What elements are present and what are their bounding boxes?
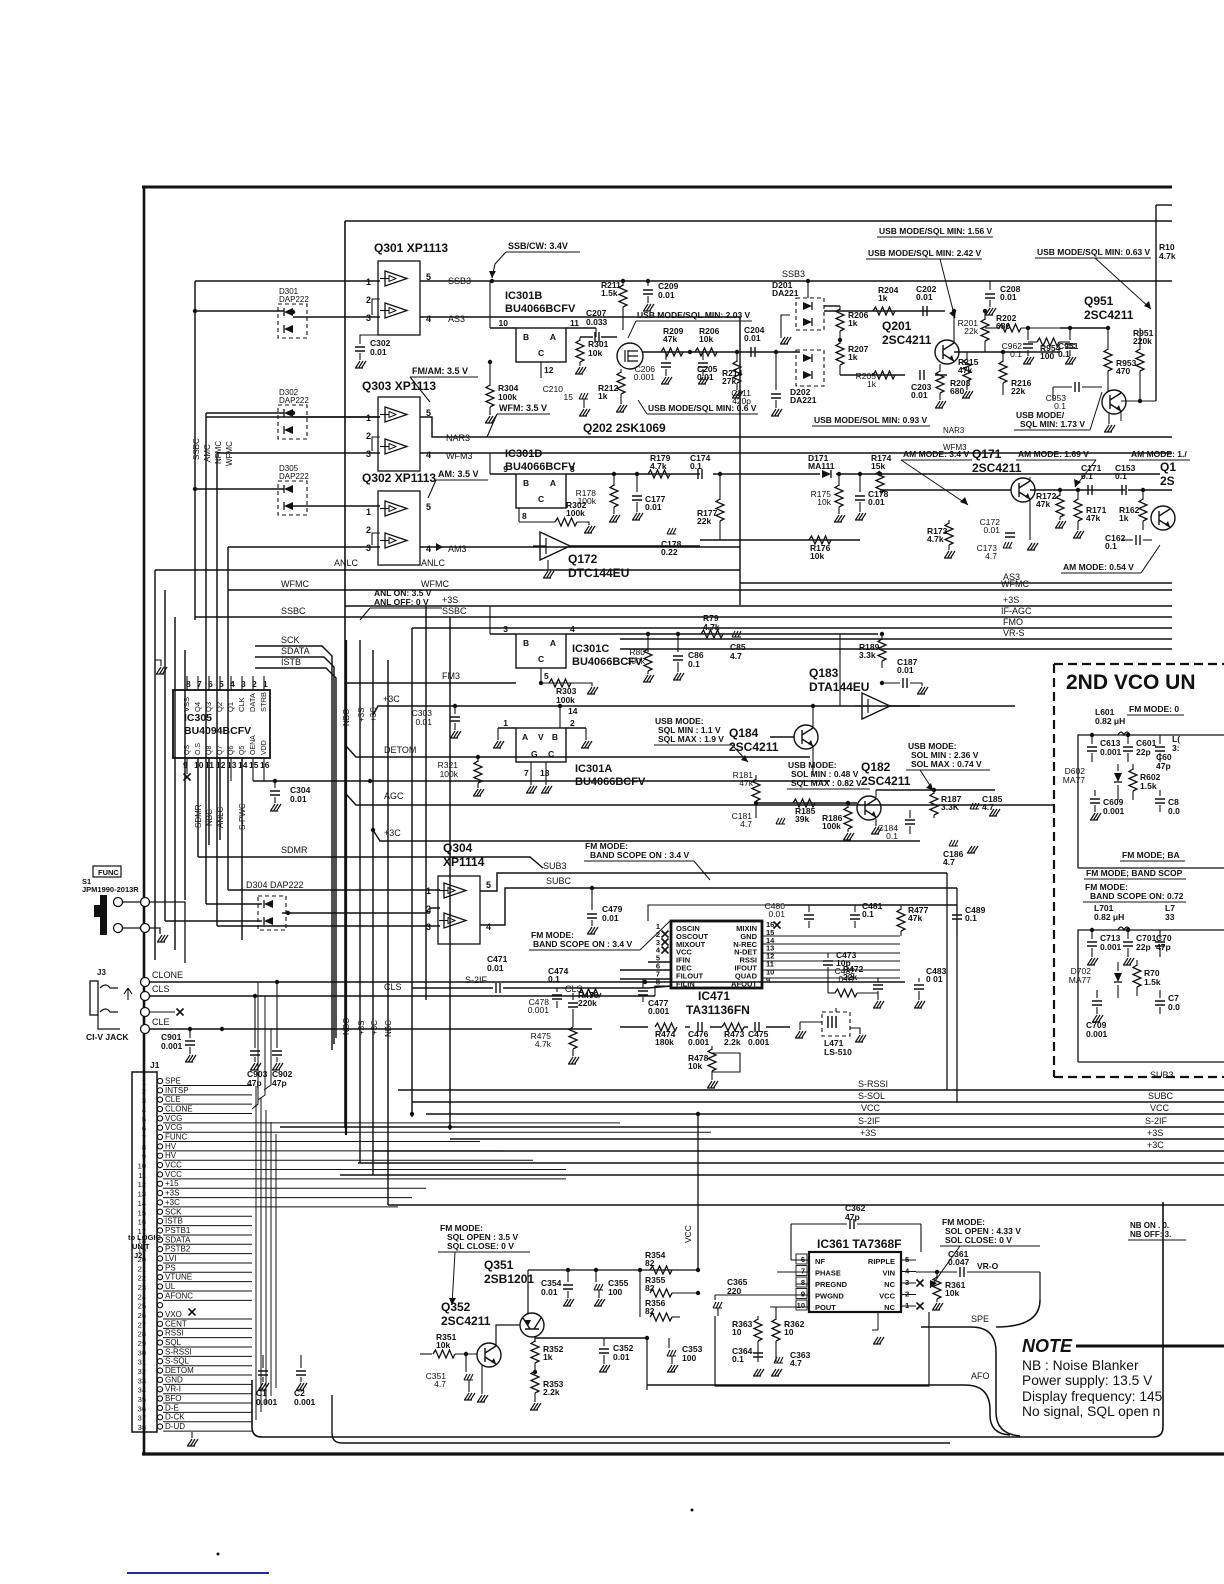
wire J1 risers from CLONE/CLS/CLE xyxy=(252,982,258,1109)
resistor R321 xyxy=(477,757,479,762)
svg-text:47p: 47p xyxy=(247,1078,262,1088)
svg-text:2ND VCO UN: 2ND VCO UN xyxy=(1066,671,1196,694)
capacitor C475 xyxy=(755,1022,759,1032)
sheet frame bottom edge xyxy=(142,1452,1224,1455)
svg-text:LVI: LVI xyxy=(165,1254,176,1263)
resistor R207 xyxy=(839,340,841,344)
svg-text:B: B xyxy=(523,638,529,648)
svg-text:RSSI: RSSI xyxy=(165,1329,184,1338)
IC361 NC X marks xyxy=(917,1280,924,1287)
long wire 1163 xyxy=(358,1162,1224,1164)
IC IC301A box xyxy=(516,728,566,762)
resistor R70x xyxy=(1136,960,1138,966)
svg-text:BFO: BFO xyxy=(165,1394,181,1403)
capacitor C609 xyxy=(1094,790,1096,796)
svg-text:+3C: +3C xyxy=(370,1020,379,1035)
capacitor C364 xyxy=(753,1353,763,1357)
capacitor C471 xyxy=(496,983,500,993)
svg-text:JPM1990-2013R: JPM1990-2013R xyxy=(82,885,139,894)
capacitor C303 xyxy=(454,706,456,714)
resistor R177 xyxy=(719,474,721,500)
svg-text:GND: GND xyxy=(165,1375,183,1384)
svg-text:NAR3: NAR3 xyxy=(446,433,470,443)
svg-text:8: 8 xyxy=(801,1278,805,1287)
svg-text:CI-V JACK: CI-V JACK xyxy=(86,1032,129,1042)
capacitor C901 xyxy=(189,1029,191,1038)
capacitor C953 xyxy=(1075,382,1079,392)
wire SCK xyxy=(255,646,332,1050)
wire SDATA xyxy=(255,657,334,1044)
svg-text:22: 22 xyxy=(138,1274,146,1283)
svg-text:J1: J1 xyxy=(150,1060,160,1070)
svg-text:WFMC: WFMC xyxy=(1001,579,1029,589)
svg-text:SUB3: SUB3 xyxy=(543,861,567,871)
resistor R953 xyxy=(1107,328,1109,350)
svg-text:PS: PS xyxy=(165,1263,176,1272)
IC IC305 box xyxy=(173,690,270,758)
resistor R951 xyxy=(1139,328,1141,350)
svg-text:0.01: 0.01 xyxy=(697,372,714,382)
svg-text:NB : Noise Blanker: NB : Noise Blanker xyxy=(1022,1358,1139,1373)
Q304 buffer b xyxy=(439,913,466,928)
L471 coil symbol xyxy=(828,1016,836,1028)
svg-text:+3S: +3S xyxy=(860,1128,876,1138)
J1 ground xyxy=(191,1432,193,1438)
diode D602 xyxy=(1114,773,1122,782)
svg-text:0.01: 0.01 xyxy=(868,497,885,507)
resistor R351 xyxy=(420,1353,432,1355)
svg-text:3: 3 xyxy=(426,922,431,932)
top right corner bracket xyxy=(1156,204,1172,206)
capacitor C203 xyxy=(920,370,924,380)
svg-text:WFMC: WFMC xyxy=(225,441,234,466)
wire SUBC vertical drop xyxy=(956,888,958,1102)
IC301D output wire xyxy=(566,473,700,475)
inductor L701 symbol xyxy=(1118,927,1130,930)
svg-text:0.1: 0.1 xyxy=(965,913,977,923)
capacitor C352 xyxy=(603,1338,605,1346)
capacitor C354 xyxy=(567,1270,569,1282)
wire R205 row xyxy=(840,374,905,376)
svg-text:SCK: SCK xyxy=(281,635,300,645)
wire AGC xyxy=(346,794,1054,805)
wire IC471 top rail xyxy=(648,905,785,921)
capacitor C211 xyxy=(775,352,777,390)
svg-text:0.001: 0.001 xyxy=(748,1037,770,1047)
svg-text:Q182: Q182 xyxy=(861,760,891,774)
svg-text:0.033: 0.033 xyxy=(586,317,608,327)
svg-text:1.5k: 1.5k xyxy=(1144,977,1161,987)
svg-text:BAND SCOPE ON : 3.4 V: BAND SCOPE ON : 3.4 V xyxy=(590,850,690,860)
wire DETOM xyxy=(346,746,810,757)
svg-text:28: 28 xyxy=(138,1330,146,1339)
S1 lower wire to ground xyxy=(149,928,160,934)
svg-text:NOTE: NOTE xyxy=(1022,1336,1073,1356)
resistor R205 xyxy=(873,371,895,379)
resistor R361 xyxy=(936,1272,938,1278)
svg-text:NC: NC xyxy=(884,1280,895,1289)
svg-text:23: 23 xyxy=(138,1283,146,1292)
svg-text:10k: 10k xyxy=(588,348,602,358)
third contact circle with X xyxy=(141,1008,150,1017)
svg-text:0.01: 0.01 xyxy=(290,794,307,804)
CLS arrow mark xyxy=(124,988,132,1000)
svg-text:10k: 10k xyxy=(436,1340,450,1350)
svg-text:DAP222: DAP222 xyxy=(279,472,309,481)
svg-text:0.1: 0.1 xyxy=(1105,541,1117,551)
wire SPE xyxy=(1039,1272,1041,1300)
svg-text:5: 5 xyxy=(142,1115,146,1124)
wire left edge vertical 1 xyxy=(154,570,156,960)
svg-text:0.001: 0.001 xyxy=(1103,806,1125,816)
CLE circle and wire xyxy=(141,1025,150,1034)
svg-text:DTA144EU: DTA144EU xyxy=(809,680,869,694)
svg-text:HV: HV xyxy=(165,1151,177,1160)
svg-text:1: 1 xyxy=(142,1078,146,1087)
wire Q182 emitter xyxy=(875,819,877,826)
svg-text:SSBC: SSBC xyxy=(281,606,306,616)
IC301C pin3 wire xyxy=(489,606,491,634)
D302 diode elements xyxy=(284,409,293,417)
transistor Q184 xyxy=(794,725,818,749)
resistor R212 xyxy=(620,369,622,373)
svg-text:Q4: Q4 xyxy=(193,702,202,712)
svg-text:47p: 47p xyxy=(272,1078,287,1088)
Q303 buffer b xyxy=(380,439,407,454)
svg-text:10k: 10k xyxy=(810,551,824,561)
svg-text:0.01: 0.01 xyxy=(613,1352,630,1362)
svg-text:2.2k: 2.2k xyxy=(724,1037,741,1047)
svg-text:SPE: SPE xyxy=(165,1077,181,1086)
svg-text:0.22: 0.22 xyxy=(661,547,678,557)
resistor R187 xyxy=(933,790,935,794)
svg-text:VIN: VIN xyxy=(882,1269,895,1278)
svg-text:FM MODE; BAND SCOP: FM MODE; BAND SCOP xyxy=(1086,868,1183,878)
transistor Q182 xyxy=(857,796,881,820)
capacitor C483 xyxy=(918,978,920,982)
IC301B pin wires xyxy=(490,327,516,329)
capacitor C351 electrolytic xyxy=(465,1354,467,1372)
svg-text:ISTB: ISTB xyxy=(165,1217,183,1226)
svg-text:4.7k: 4.7k xyxy=(927,534,944,544)
svg-text:100k: 100k xyxy=(578,496,597,506)
wire Q301 pin2 loop xyxy=(372,299,380,315)
svg-text:4.7k: 4.7k xyxy=(1159,251,1176,261)
resistor R478 xyxy=(711,1046,713,1050)
resistor R172 xyxy=(1059,490,1061,496)
svg-text:180k: 180k xyxy=(655,1037,674,1047)
wire IC301B out to C207 xyxy=(566,327,596,329)
capacitor C210 electrolytic xyxy=(579,393,588,399)
svg-text:VCG: VCG xyxy=(165,1123,182,1132)
capacitor C184 xyxy=(905,820,915,824)
svg-text:0.001: 0.001 xyxy=(1086,1029,1108,1039)
wire Q182 base row xyxy=(756,802,857,804)
svg-text:37: 37 xyxy=(138,1414,146,1423)
svg-text:Q202 2SK1069: Q202 2SK1069 xyxy=(583,421,666,435)
resistor R352 xyxy=(531,1341,539,1363)
svg-text:0.1: 0.1 xyxy=(732,1354,744,1364)
wire Q352 collector to Q351 base xyxy=(496,1325,520,1346)
svg-text:13: 13 xyxy=(227,760,237,770)
svg-text:B: B xyxy=(523,478,529,488)
svg-text:1: 1 xyxy=(426,886,431,896)
svg-text:680: 680 xyxy=(996,321,1010,331)
svg-text:1k: 1k xyxy=(848,318,858,328)
svg-text:3: 3 xyxy=(366,313,371,323)
svg-text:7: 7 xyxy=(801,1267,805,1276)
svg-text:0.1: 0.1 xyxy=(1081,471,1093,481)
svg-text:100k: 100k xyxy=(566,508,585,518)
wire vertical NBC mid xyxy=(387,660,389,1205)
svg-text:UL: UL xyxy=(165,1282,176,1291)
wire SSBC vertical xyxy=(194,281,196,620)
svg-text:0.1: 0.1 xyxy=(862,909,874,919)
svg-text:11: 11 xyxy=(570,318,579,328)
wire Q184 collector xyxy=(812,706,814,728)
svg-text:100k: 100k xyxy=(822,821,841,831)
capacitor C474 xyxy=(556,988,558,992)
wire to IC471 pin5 xyxy=(560,987,648,989)
svg-text:10k: 10k xyxy=(688,1061,702,1071)
svg-text:47p: 47p xyxy=(1156,942,1171,952)
svg-text:2SC4211: 2SC4211 xyxy=(1084,308,1134,322)
capacitor C177 xyxy=(636,474,638,492)
svg-text:26: 26 xyxy=(138,1311,146,1320)
svg-text:13: 13 xyxy=(138,1190,146,1199)
svg-text:IC301C: IC301C xyxy=(572,643,609,655)
R478 bypass loop xyxy=(712,1053,740,1072)
svg-text:Q2: Q2 xyxy=(215,702,224,712)
IC471 right stub wires xyxy=(762,935,900,937)
svg-text:29: 29 xyxy=(138,1339,146,1348)
wire left edge vertical 3 xyxy=(174,617,176,950)
capacitor C178b electrolytic xyxy=(667,528,676,534)
svg-text:1k: 1k xyxy=(867,379,877,389)
svg-text:4.7: 4.7 xyxy=(730,651,742,661)
resistor R355 xyxy=(639,1270,641,1293)
svg-text:30: 30 xyxy=(138,1348,146,1357)
svg-text:0.047: 0.047 xyxy=(948,1257,970,1267)
svg-text:NC: NC xyxy=(884,1303,895,1312)
svg-text:Q1: Q1 xyxy=(1160,460,1176,474)
svg-text:2SC4211: 2SC4211 xyxy=(972,461,1022,475)
IC305 ground top-left xyxy=(155,660,161,666)
resistor R201 xyxy=(984,311,986,320)
wire gate xyxy=(601,336,617,338)
diode D301 DAP222 dashed box xyxy=(278,304,307,338)
svg-text:10: 10 xyxy=(499,318,509,328)
svg-text:1k: 1k xyxy=(848,352,858,362)
capacitor C174 xyxy=(698,469,702,479)
svg-text:1: 1 xyxy=(366,413,371,423)
svg-text:680: 680 xyxy=(950,386,964,396)
svg-text:0.001: 0.001 xyxy=(161,1041,183,1051)
Q303 buffer a xyxy=(380,407,407,422)
svg-text:3: 3 xyxy=(366,449,371,459)
wire R204 row xyxy=(860,310,945,312)
svg-text:12: 12 xyxy=(138,1180,146,1189)
svg-text:SQL MAX : 0.82 V: SQL MAX : 0.82 V xyxy=(791,778,862,788)
svg-text:47k: 47k xyxy=(958,365,972,375)
IC IC301C box xyxy=(516,634,566,668)
net SSBC bus line xyxy=(195,616,1172,618)
IC IC301D box xyxy=(516,474,566,508)
svg-text:0.0: 0.0 xyxy=(1168,806,1180,816)
svg-text:82: 82 xyxy=(645,1306,655,1316)
capacitor C962 xyxy=(1027,328,1029,340)
wire Q351 emitter down xyxy=(534,1337,536,1342)
D305 diode elements xyxy=(284,485,293,493)
svg-text:82: 82 xyxy=(645,1283,655,1293)
svg-text:32: 32 xyxy=(138,1367,146,1376)
svg-text:+3S: +3S xyxy=(1003,595,1019,605)
svg-text:3.3k: 3.3k xyxy=(859,650,876,660)
svg-text:Q352: Q352 xyxy=(441,1300,471,1314)
svg-text:14: 14 xyxy=(138,1199,146,1208)
svg-text:VR-O: VR-O xyxy=(977,1261,999,1271)
wire Q304 inputs xyxy=(228,889,440,891)
wire Q184 emitter xyxy=(812,746,814,775)
svg-text:PWGND: PWGND xyxy=(815,1292,844,1301)
svg-text:S-RSSI: S-RSSI xyxy=(165,1347,192,1356)
transistor Q171 xyxy=(1011,478,1035,502)
wire vertical NBO xyxy=(345,640,347,1135)
svg-text:BU4066BCFV: BU4066BCFV xyxy=(505,303,576,315)
svg-text:WFMC: WFMC xyxy=(281,579,309,589)
svg-text:S-2IF: S-2IF xyxy=(465,975,488,985)
diode D202 DA221 dashed box xyxy=(796,350,824,386)
svg-text:0.01: 0.01 xyxy=(658,290,675,300)
svg-text:14: 14 xyxy=(238,760,248,770)
svg-text:SCK: SCK xyxy=(165,1207,182,1216)
wire S-2IF row xyxy=(412,987,493,989)
wire vertical 412 xyxy=(411,628,413,1117)
svg-text:A: A xyxy=(550,638,556,648)
resistor R954 xyxy=(1037,338,1059,346)
capacitor C479 xyxy=(591,888,593,910)
resistor R473 xyxy=(722,1023,744,1031)
IC305 pin9 X xyxy=(186,758,188,774)
svg-text:+3S: +3S xyxy=(1147,1128,1163,1138)
resistor R363 xyxy=(757,1316,759,1320)
svg-text:0.01: 0.01 xyxy=(916,292,933,302)
svg-text:VSS: VSS xyxy=(182,697,191,712)
wire Q352 emitter xyxy=(481,1365,483,1372)
svg-text:11: 11 xyxy=(138,1171,146,1180)
svg-text:4: 4 xyxy=(486,922,491,932)
CLS circle and wire xyxy=(141,992,150,1001)
net IF-AGC bus line xyxy=(344,618,346,620)
Q302 buffer b xyxy=(380,533,407,548)
wire D305 connections xyxy=(195,488,284,490)
diode D305 DAP222 dashed box xyxy=(278,481,307,515)
Q172 ground xyxy=(547,560,549,570)
wire IC471 pin8 loop xyxy=(655,986,671,996)
wire ANLC net xyxy=(155,569,740,571)
IC361 feedback verticals xyxy=(790,1224,792,1260)
svg-text:1.5k: 1.5k xyxy=(601,288,618,298)
resistor R181 xyxy=(755,775,757,780)
svg-text:Q303 XP1113: Q303 XP1113 xyxy=(362,379,436,393)
D301 diode elements xyxy=(284,308,293,316)
capacitor C481 xyxy=(854,905,856,912)
svg-text:O.S: O.S xyxy=(195,743,202,755)
wire Q182 collector row xyxy=(875,790,877,797)
wire C480 rail xyxy=(785,904,957,906)
svg-text:47p: 47p xyxy=(1156,761,1171,771)
wire ISTB xyxy=(255,668,336,1038)
svg-text:1k: 1k xyxy=(543,1352,553,1362)
svg-text:15: 15 xyxy=(249,760,259,770)
svg-text:4.7: 4.7 xyxy=(943,857,955,867)
svg-text:22k: 22k xyxy=(964,326,978,336)
connector J1 box xyxy=(132,1072,157,1432)
svg-text:VDD: VDD xyxy=(261,740,268,755)
wire S-PWC down xyxy=(241,758,243,940)
capacitor C480 xyxy=(808,905,810,912)
svg-text:16: 16 xyxy=(260,760,270,770)
svg-text:2SC4211: 2SC4211 xyxy=(729,740,779,754)
svg-text:12: 12 xyxy=(216,760,226,770)
wire SUBC xyxy=(480,888,957,925)
svg-text:+3C: +3C xyxy=(384,828,401,838)
net S-SOL bus xyxy=(412,1101,1224,1103)
svg-text:Q201: Q201 xyxy=(882,319,912,333)
wire WFM3 net xyxy=(420,452,1172,454)
S1 contacts xyxy=(114,898,123,907)
svg-text:VR-S: VR-S xyxy=(1003,628,1025,638)
svg-text:+3S: +3S xyxy=(442,595,458,605)
svg-text:15: 15 xyxy=(564,392,574,402)
svg-text:0.01: 0.01 xyxy=(541,1287,558,1297)
svg-text:BU4066BCFV: BU4066BCFV xyxy=(575,776,646,788)
net WFMC bus line xyxy=(228,589,1172,591)
svg-text:10k: 10k xyxy=(699,334,713,344)
switch S1 FUNC boxed label xyxy=(93,866,121,877)
Q304 buffer a xyxy=(439,883,466,898)
wire Q172 output row xyxy=(570,545,700,547)
svg-text:2S: 2S xyxy=(1160,474,1175,488)
wire Q183 output xyxy=(890,705,1015,707)
svg-text:2SB1201: 2SB1201 xyxy=(484,1272,534,1286)
svg-text:10: 10 xyxy=(797,1301,805,1310)
IC301D pin wires xyxy=(490,473,516,475)
svg-text:12: 12 xyxy=(544,365,554,375)
S1 upper wire xyxy=(149,902,185,963)
capacitor C476 xyxy=(698,1022,702,1032)
D201/D202 mid ground xyxy=(781,315,790,338)
svg-text:CLONE: CLONE xyxy=(165,1105,193,1114)
svg-text:J3: J3 xyxy=(97,968,106,977)
resistor R354 xyxy=(650,1266,672,1274)
svg-text:CLONE: CLONE xyxy=(152,970,183,980)
svg-text:C: C xyxy=(538,348,544,358)
wire D201 top to SSB3 xyxy=(807,281,809,298)
svg-text:SPE: SPE xyxy=(971,1314,989,1324)
svg-text:82: 82 xyxy=(645,1258,655,1268)
capacitor C601 xyxy=(1127,735,1129,744)
svg-text:FUNC: FUNC xyxy=(165,1133,187,1142)
svg-text:SSBC: SSBC xyxy=(442,606,467,616)
svg-text:MA77: MA77 xyxy=(1063,775,1085,785)
wire AMC vertical xyxy=(205,413,207,904)
svg-text:1: 1 xyxy=(366,277,371,287)
capacitor C951 xyxy=(1069,328,1071,340)
svg-text:Q351: Q351 xyxy=(484,1258,514,1272)
svg-text:1.5k: 1.5k xyxy=(1140,781,1157,791)
svg-text:IC361 TA7368F: IC361 TA7368F xyxy=(817,1237,902,1251)
